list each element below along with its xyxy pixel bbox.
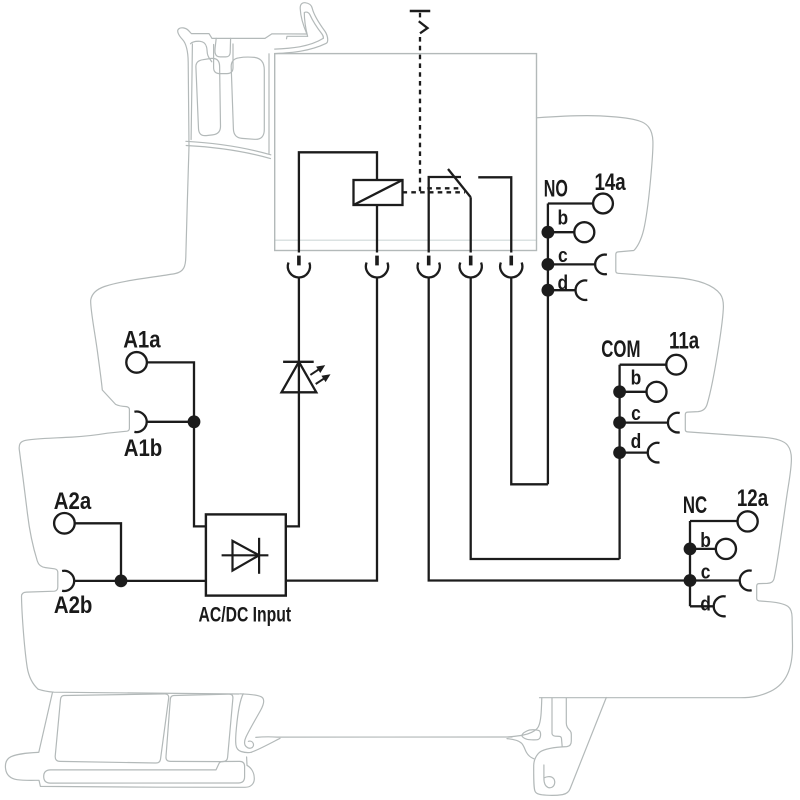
svg-text:A2b: A2b — [54, 591, 93, 618]
test button chevron — [419, 21, 428, 33]
svg-text:AC/DC Input: AC/DC Input — [198, 602, 291, 626]
pin plug2 — [375, 256, 379, 266]
left foot window B — [166, 694, 233, 762]
left foot channel slot — [44, 761, 245, 783]
relay coil K1 — [354, 180, 403, 205]
svg-text:b: b — [631, 367, 642, 390]
switch blade — [448, 169, 471, 197]
socket arc plug4 — [460, 263, 482, 278]
svg-text:d: d — [557, 272, 568, 295]
wire NO b — [548, 231, 574, 233]
LED indicator — [282, 362, 317, 393]
terminal NC d arc — [714, 596, 726, 616]
svg-text:12a: 12a — [737, 485, 769, 512]
terminal 14a — [593, 194, 613, 214]
right foot toe bulge — [544, 765, 555, 788]
terminal circles — [54, 194, 758, 559]
test linkage dashed vertical — [419, 13, 421, 18]
svg-text:A1a: A1a — [123, 326, 161, 353]
junction NO d — [542, 284, 555, 297]
svg-text:A2a: A2a — [54, 487, 92, 514]
wire COM c — [620, 421, 669, 423]
COM chain vertical — [618, 365, 620, 559]
body left edge from latch down to A1 shoulder — [19, 147, 189, 690]
junction COM d — [613, 446, 626, 459]
wire NO to 14a — [548, 202, 593, 204]
svg-text:d: d — [631, 431, 642, 454]
LED arrow 2 — [316, 374, 331, 384]
right foot rail clip nose — [522, 730, 541, 740]
latch inner left edge — [191, 44, 192, 140]
svg-text:c: c — [631, 403, 641, 426]
switch fixed contact NC side — [429, 177, 461, 253]
right shoulder from relay box to NO section — [537, 116, 793, 698]
switch pole wire — [470, 197, 472, 252]
wire NC d — [690, 605, 714, 607]
latch cavity floor curves — [186, 141, 271, 155]
wire plug3 to NC c — [429, 278, 690, 581]
wire NC c — [690, 579, 740, 581]
terminal 11a — [666, 355, 686, 375]
junction A2 — [115, 575, 128, 588]
wire COM to 11a — [620, 364, 667, 366]
wire COM d — [620, 451, 648, 453]
socket arc plug1 — [288, 263, 310, 278]
svg-text:14a: 14a — [594, 169, 626, 196]
wire plug1 to LED to rectifier — [286, 278, 299, 527]
socket arc plug5 — [500, 263, 522, 278]
latch hook ledge — [287, 36, 308, 39]
terminal A1b arc — [134, 412, 146, 433]
left foot right catch outer — [240, 694, 264, 748]
wire NC b — [690, 548, 716, 550]
latch tab pocket — [214, 44, 233, 74]
junction NC c — [684, 574, 697, 587]
terminal NO b — [574, 222, 594, 242]
rail lower edge converging at left foot — [251, 738, 280, 752]
terminal COM c arc — [668, 413, 680, 433]
latch release hook — [275, 3, 328, 54]
right foot inner vertical — [562, 698, 571, 747]
left foot window A — [55, 694, 169, 763]
switch fixed contact NO side — [478, 177, 511, 252]
terminal NC c arc — [740, 571, 752, 591]
latch slot left — [196, 58, 221, 135]
left foot catch inner edge — [236, 694, 252, 753]
right foot outline with slant edge — [534, 698, 607, 796]
latch outer edge with top-left bump — [178, 28, 307, 147]
plug pins and socket arcs at relay base — [297, 256, 513, 266]
latch slot right — [231, 57, 264, 139]
right foot left edge curving into rail beak — [508, 698, 542, 737]
svg-text:COM: COM — [601, 336, 640, 363]
wire A2b through junction to rectifier — [74, 580, 206, 582]
terminal A2b arc — [62, 571, 74, 591]
wire COM b — [620, 391, 647, 393]
svg-text:c: c — [701, 561, 711, 584]
terminal NO c arc — [595, 255, 607, 275]
svg-text:d: d — [700, 593, 711, 616]
pin plug1 — [297, 256, 301, 266]
socket arc plug3 — [418, 263, 440, 278]
latch small tab — [215, 38, 231, 57]
relay socket gray box — [275, 54, 537, 251]
wire A2a to junction — [75, 523, 121, 581]
wire coil feed left branch — [299, 152, 377, 252]
test button bar — [410, 10, 431, 13]
right foot inner catch step — [552, 698, 562, 747]
junction A1 — [188, 415, 201, 428]
wire A1a to junction — [147, 362, 194, 421]
wire coil bottom to plug 2 — [376, 205, 378, 253]
socket arc plug2 — [366, 263, 388, 278]
inner shelf line in relay box — [275, 239, 537, 241]
svg-text:A1b: A1b — [124, 434, 163, 461]
junction NC b — [684, 543, 697, 556]
latch hook inner curl — [275, 12, 324, 49]
terminal NC b — [716, 539, 736, 559]
linkage dashed horizontal lower from coil — [403, 191, 466, 193]
wire NC to 12a — [690, 520, 738, 522]
junction NO b — [542, 226, 555, 239]
terminal COM b — [647, 382, 667, 402]
svg-text:11a: 11a — [669, 328, 700, 355]
NO chain vertical — [547, 204, 549, 485]
rectifier diode — [222, 538, 269, 574]
svg-text:b: b — [700, 530, 711, 553]
svg-text:c: c — [558, 245, 568, 268]
terminal 12a — [738, 511, 758, 531]
AC/DC rectifier box — [206, 514, 286, 595]
pin plug5 — [509, 256, 513, 266]
junction COM b — [613, 385, 626, 398]
junction NO c — [542, 258, 555, 271]
LED arrow 1 — [310, 365, 325, 375]
terminal A2a — [54, 513, 75, 534]
wire plug2 down to rectifier right — [286, 278, 377, 581]
wire A1 junction down to rectifier — [194, 422, 206, 527]
terminal COM d arc — [648, 443, 660, 463]
svg-text:NC: NC — [683, 492, 707, 519]
right foot beak lower edge — [507, 739, 534, 759]
latch inner cavity edge — [191, 41, 212, 62]
left foot outer edge with hook and bottom — [5, 692, 254, 787]
linkage dashed horizontal upper — [427, 187, 459, 189]
wire A1b to junction — [147, 421, 195, 423]
body bottom edge left section — [38, 689, 239, 694]
svg-text:b: b — [557, 207, 568, 230]
wire plug5 to NO chain — [511, 278, 548, 485]
pin plug4 — [469, 256, 473, 266]
pin plug3 — [427, 256, 431, 266]
rail top edge between feet — [256, 736, 512, 739]
terminal NO d arc — [576, 280, 588, 300]
junction COM c — [613, 416, 626, 429]
socket arcs open left (A1b A2b) and open right (c d) — [62, 255, 752, 617]
wire NO c — [548, 263, 596, 265]
latch cavity right vertical — [268, 54, 270, 154]
wire NO d — [548, 289, 576, 291]
svg-text:NO: NO — [544, 177, 568, 203]
NC chain vertical — [689, 521, 691, 606]
terminal A1a — [126, 352, 147, 373]
wire plug4 to COM chain — [471, 278, 620, 560]
